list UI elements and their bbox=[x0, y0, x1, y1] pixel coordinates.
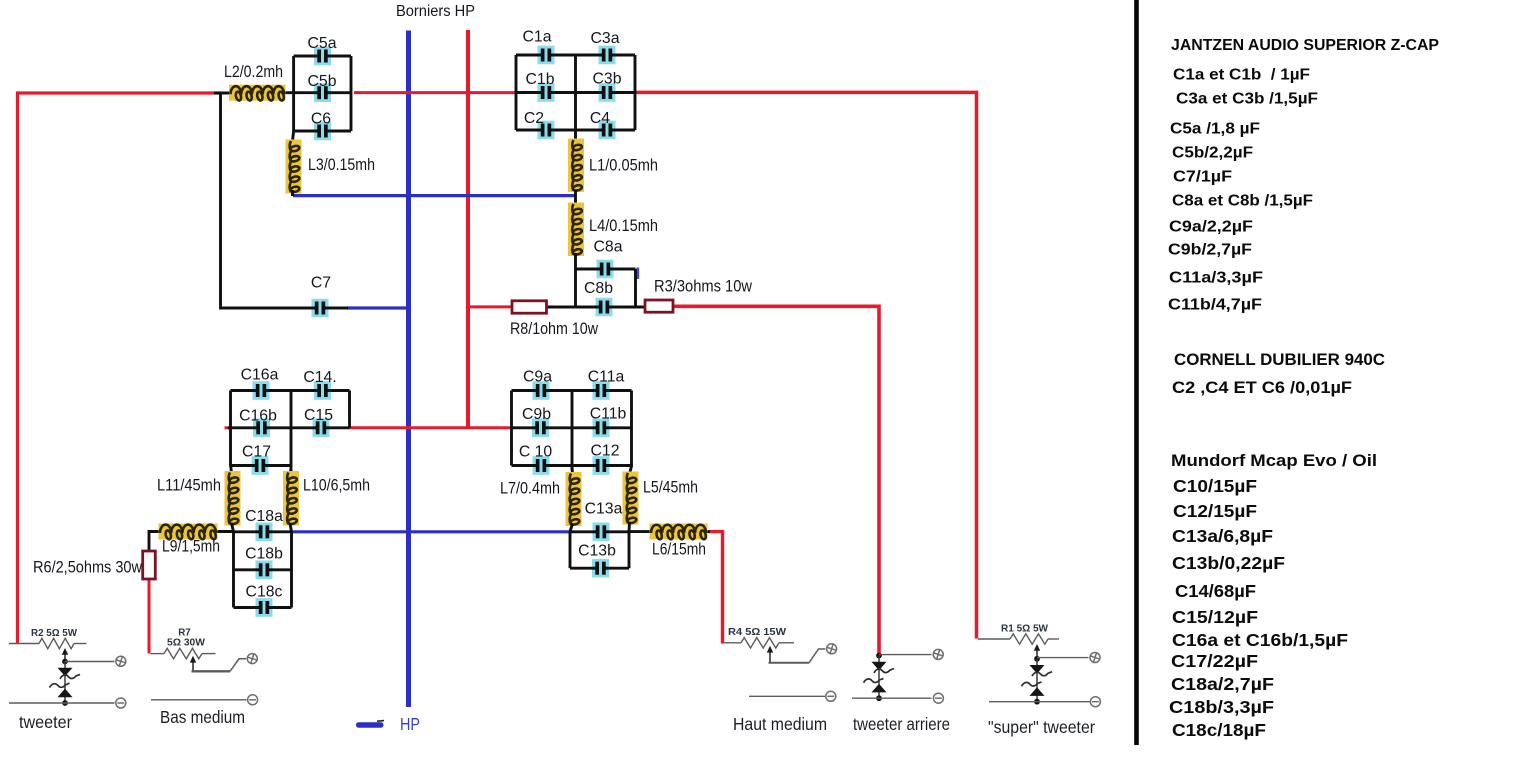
wire C13a row bbox=[570, 530, 629, 533]
svg-text:C5a /1,8 µF: C5a /1,8 µF bbox=[1170, 121, 1260, 138]
wire red feed to R8 bbox=[468, 305, 512, 308]
svg-text:C13b: C13b bbox=[578, 543, 616, 560]
svg-text:tweeter: tweeter bbox=[19, 712, 72, 732]
resistor R8 bbox=[512, 301, 547, 313]
capacitor C18a bbox=[256, 523, 273, 542]
svg-text:C3a: C3a bbox=[591, 30, 620, 47]
wire black L9 right lead bbox=[216, 530, 234, 533]
wiper arrow R1 bbox=[1034, 644, 1040, 659]
wire C9 bank middle rail bbox=[571, 391, 574, 471]
svg-text:C17/22µF: C17/22µF bbox=[1171, 651, 1258, 671]
svg-text:L1/0.05mh: L1/0.05mh bbox=[589, 157, 658, 175]
resistor R6 bbox=[143, 551, 156, 579]
wire Haut medium plus lead bbox=[769, 649, 826, 663]
wire C1a C3a row bbox=[516, 54, 635, 57]
wire C18 bank left rail bbox=[232, 532, 235, 608]
wire blue from C18 bank to C13 bank bbox=[292, 530, 571, 533]
wire C8a row bbox=[576, 268, 636, 271]
potentiometer R1 of super tweeter bbox=[978, 634, 1059, 644]
capacitor C16b bbox=[253, 419, 270, 438]
inductor L11 bbox=[225, 471, 241, 526]
capacitor C12 bbox=[593, 456, 610, 475]
svg-text:C16a: C16a bbox=[241, 367, 279, 384]
svg-text:C15: C15 bbox=[304, 407, 333, 424]
wire C13 bank left rail bbox=[569, 532, 572, 568]
wire C6 row bbox=[294, 130, 351, 133]
sidebar divider line bbox=[1134, 0, 1139, 745]
svg-text:C3a et C3b /1,5µF: C3a et C3b /1,5µF bbox=[1176, 91, 1318, 108]
svg-text:R6/2,5ohms 30w: R6/2,5ohms 30w bbox=[33, 559, 142, 577]
svg-text:C1a et C1b / 1µF: C1a et C1b / 1µF bbox=[1173, 67, 1310, 84]
wire black L4 down to C8b row bbox=[574, 253, 577, 308]
svg-text:C14.: C14. bbox=[303, 369, 336, 386]
svg-text:HP: HP bbox=[400, 714, 420, 734]
wire black L10 to C18 junction bbox=[290, 523, 292, 532]
wire red between C5 bank and C1 bank bbox=[354, 91, 516, 94]
capacitor C16a bbox=[253, 381, 270, 400]
wire C5b row bbox=[294, 91, 351, 94]
node tweeter arriere minus bbox=[876, 695, 882, 701]
svg-text:C1a: C1a bbox=[523, 29, 552, 46]
capacitor C5b bbox=[314, 83, 331, 102]
capacitor C9b bbox=[532, 419, 549, 438]
legend tick bbox=[377, 720, 384, 723]
svg-text:C9a/2,2µF: C9a/2,2µF bbox=[1169, 219, 1253, 236]
svg-text:R3/3ohms 10w: R3/3ohms 10w bbox=[654, 278, 752, 296]
svg-text:C2 ,C4 ET C6 /0,01µF: C2 ,C4 ET C6 /0,01µF bbox=[1172, 378, 1352, 397]
wire C13b row bbox=[570, 567, 629, 570]
wire black C7 row bbox=[221, 307, 349, 310]
svg-text:C18c: C18c bbox=[246, 584, 283, 601]
wire red HP+ bus vertical bbox=[466, 30, 470, 429]
capacitor C8b bbox=[596, 298, 613, 317]
wire red from L6 to Haut medium bbox=[709, 532, 723, 644]
wire black L9 left lead and corner to R6 bbox=[149, 532, 160, 552]
terminal super tweeter minus bbox=[1090, 697, 1100, 707]
capacitor C2 bbox=[538, 121, 555, 140]
svg-text:C18b: C18b bbox=[245, 546, 283, 563]
node tweeter arriere plus bbox=[876, 653, 882, 659]
wire C16a C14 row bbox=[231, 389, 350, 392]
terminal tweeter arriere plus bbox=[932, 649, 944, 661]
capacitor C18b bbox=[256, 561, 273, 580]
svg-text:L10/6,5mh: L10/6,5mh bbox=[303, 477, 370, 495]
node super tweeter plus bbox=[1034, 656, 1040, 662]
capacitor C3a bbox=[599, 46, 616, 65]
node tweeter minus bbox=[62, 700, 68, 706]
wire black L7 stub bbox=[571, 467, 574, 474]
svg-text:C12: C12 bbox=[591, 443, 620, 460]
wire black L11 to C18 junction bbox=[232, 523, 234, 532]
wire C1 bank left rail bbox=[515, 55, 518, 130]
terminal Bas medium minus bbox=[248, 695, 258, 705]
wire black C17 rail to L11 bbox=[229, 466, 233, 473]
wiper arrow R2 bbox=[62, 648, 68, 662]
terminal tweeter plus bbox=[115, 656, 127, 668]
wire black C6-rail to L3 bbox=[293, 131, 294, 141]
svg-text:tweeter arriere: tweeter arriere bbox=[853, 714, 950, 734]
node L2/C5 bank junction bbox=[292, 56, 295, 131]
wire red top bus to super tweeter bbox=[635, 92, 977, 638]
svg-text:CORNELL DUBILIER 940C: CORNELL DUBILIER 940C bbox=[1174, 351, 1385, 369]
capacitor C1b bbox=[538, 83, 555, 102]
wire C17 row bbox=[231, 464, 292, 467]
wire tweeter plus lead bbox=[65, 661, 115, 663]
svg-text:R1 5Ω 5W: R1 5Ω 5W bbox=[1001, 624, 1048, 635]
svg-text:L3/0.15mh: L3/0.15mh bbox=[308, 156, 375, 174]
wire black L3 bottom stub bbox=[291, 190, 294, 196]
wire red left feed rail bbox=[18, 93, 221, 643]
svg-text:C17: C17 bbox=[242, 444, 271, 461]
wire black L6 right lead bbox=[705, 530, 710, 533]
wire blue from C7 to HP- bus bbox=[347, 306, 410, 309]
capacitor C1a bbox=[538, 46, 555, 65]
svg-text:C18a: C18a bbox=[245, 508, 283, 525]
svg-text:C 10: C 10 bbox=[519, 444, 553, 461]
wire tweeter arriere minus lead bbox=[852, 697, 932, 699]
wire black L5 to C13 junction bbox=[628, 522, 631, 532]
wiper arrow R4 bbox=[767, 646, 773, 663]
inductor L10 bbox=[283, 471, 299, 526]
wire tweeter minus lead bbox=[9, 702, 115, 704]
terminal tweeter arriere minus bbox=[933, 693, 943, 703]
svg-text:C18a/2,7µF: C18a/2,7µF bbox=[1171, 674, 1274, 694]
wire C9 bank left rail bbox=[510, 391, 513, 466]
wire C16 bank middle rail bbox=[290, 391, 293, 472]
svg-text:C6: C6 bbox=[311, 111, 331, 128]
svg-text:C3b: C3b bbox=[593, 71, 622, 88]
svg-text:C13b/0,22µF: C13b/0,22µF bbox=[1172, 553, 1285, 573]
svg-text:Mundorf Mcap Evo / Oil: Mundorf Mcap Evo / Oil bbox=[1171, 451, 1377, 470]
svg-text:C7: C7 bbox=[311, 275, 331, 292]
svg-text:C15/12µF: C15/12µF bbox=[1172, 607, 1258, 627]
svg-text:C8b: C8b bbox=[584, 280, 613, 297]
wire blue HP- bus vertical bbox=[406, 31, 411, 708]
wire blue stub at C8a right rail bbox=[636, 268, 639, 280]
potentiometer R4 of Haut medium bbox=[723, 638, 794, 648]
svg-text:R2 5Ω 5W: R2 5Ω 5W bbox=[31, 628, 78, 639]
svg-text:C5b: C5b bbox=[308, 73, 337, 90]
wire C8b row bbox=[545, 306, 646, 309]
svg-text:5Ω 30W: 5Ω 30W bbox=[167, 638, 206, 649]
svg-text:L9/1,5mh: L9/1,5mh bbox=[162, 538, 220, 556]
inductor L5 bbox=[623, 472, 639, 525]
potentiometer R2 of tweeter bbox=[9, 638, 87, 648]
node super tweeter minus bbox=[1034, 699, 1040, 705]
svg-text:L2/0.2mh: L2/0.2mh bbox=[224, 63, 283, 81]
svg-text:C12/15µF: C12/15µF bbox=[1173, 501, 1257, 521]
inductor L3 bbox=[286, 140, 302, 194]
wire C18a row bbox=[234, 530, 292, 533]
svg-text:"super" tweeter: "super" tweeter bbox=[988, 717, 1095, 737]
svg-text:C14/68µF: C14/68µF bbox=[1175, 581, 1256, 601]
protection diodes tweeter bbox=[50, 662, 81, 704]
wire C13 bank right rail bbox=[628, 532, 631, 568]
wire C9 bank right rail bbox=[630, 391, 633, 468]
node tweeter plus bbox=[62, 659, 68, 665]
terminal Haut medium minus bbox=[826, 691, 836, 701]
wire C1 bank middle rail bbox=[574, 55, 577, 130]
capacitor C17 bbox=[252, 456, 269, 475]
inductor L9 bbox=[159, 524, 218, 540]
potentiometer R7 of Bas medium bbox=[151, 648, 216, 658]
capacitor C15 bbox=[313, 419, 330, 438]
wire black L10 top stub bbox=[290, 469, 291, 473]
svg-text:Haut medium: Haut medium bbox=[733, 714, 827, 734]
wire C5a row bbox=[294, 55, 351, 58]
wire C8 right rail bbox=[634, 269, 637, 307]
inductor L4 bbox=[568, 203, 584, 257]
svg-text:R4 5Ω 15W: R4 5Ω 15W bbox=[728, 627, 786, 638]
svg-text:C18b/3,3µF: C18b/3,3µF bbox=[1169, 697, 1274, 717]
svg-text:C9b/2,7µF: C9b/2,7µF bbox=[1168, 242, 1252, 259]
wire C9a C11a row bbox=[512, 389, 632, 392]
svg-text:C5b/2,2µF: C5b/2,2µF bbox=[1172, 145, 1253, 162]
wire C16b C15 row bbox=[228, 426, 350, 429]
wire Haut medium minus lead bbox=[749, 695, 825, 697]
inductor L7 bbox=[566, 472, 582, 526]
terminal super tweeter plus bbox=[1089, 652, 1101, 664]
wire super tweeter plus lead bbox=[1037, 657, 1089, 659]
capacitor C4 bbox=[599, 121, 616, 140]
svg-text:R8/1ohm 10w: R8/1ohm 10w bbox=[510, 320, 598, 338]
svg-text:Borniers HP: Borniers HP bbox=[396, 3, 475, 20]
wire black vertical from L2 node to C7 bbox=[219, 92, 222, 310]
svg-text:C13a: C13a bbox=[585, 501, 623, 518]
capacitor C5a bbox=[314, 47, 331, 66]
wire black L1 to L4 junction bbox=[574, 190, 577, 204]
capacitor C14 bbox=[314, 381, 331, 400]
svg-text:C18c/18µF: C18c/18µF bbox=[1172, 720, 1266, 740]
svg-text:C5a: C5a bbox=[308, 35, 337, 52]
wire tweeter arriere plus lead bbox=[879, 654, 932, 656]
svg-text:C2: C2 bbox=[524, 110, 544, 127]
svg-text:C11b: C11b bbox=[590, 406, 627, 423]
inductor L6 bbox=[650, 524, 708, 540]
wiper arrow R7 bbox=[190, 656, 196, 672]
capacitor C9a bbox=[533, 381, 550, 400]
terminal Haut medium plus bbox=[826, 643, 838, 655]
svg-text:Bas medium: Bas medium bbox=[160, 707, 245, 727]
svg-text:C7/1µF: C7/1µF bbox=[1173, 169, 1232, 186]
svg-text:JANTZEN AUDIO SUPERIOR Z-CAP: JANTZEN AUDIO SUPERIOR Z-CAP bbox=[1171, 37, 1439, 54]
wire C16 bank right rail bbox=[348, 391, 351, 429]
wire red from R6 to Bas medium bbox=[148, 579, 151, 654]
protection diodes tweeter arriere bbox=[864, 656, 895, 699]
capacitor C7 bbox=[312, 299, 329, 318]
wire C16 bank left rail bbox=[229, 391, 232, 467]
wire C18 bank right rail bbox=[290, 532, 293, 608]
wire C10 C12 row bbox=[512, 464, 632, 467]
svg-text:L11/45mh: L11/45mh bbox=[157, 477, 221, 495]
protection diodes super tweeter bbox=[1022, 659, 1053, 702]
wire red from R3 to tweeter arriere bbox=[673, 306, 879, 656]
svg-text:C9a: C9a bbox=[523, 369, 552, 386]
svg-text:C11a: C11a bbox=[588, 369, 625, 386]
wire C2 C4 row bbox=[516, 129, 635, 132]
svg-text:C16b: C16b bbox=[239, 408, 277, 425]
capacitor C11a bbox=[593, 381, 610, 400]
wire black C13 to L6 bbox=[629, 530, 651, 533]
capacitor C6 bbox=[314, 122, 331, 141]
capacitor C13b bbox=[592, 559, 609, 578]
wire red stub left of C16b bbox=[225, 426, 231, 429]
wire C9b C11b row bbox=[512, 426, 632, 429]
svg-text:L6/15mh: L6/15mh bbox=[652, 541, 706, 559]
legend HP wire sample bbox=[356, 722, 384, 727]
svg-text:C16a et C16b/1,5µF: C16a et C16b/1,5µF bbox=[1172, 630, 1348, 650]
wire C1 bank right rail bbox=[634, 55, 637, 130]
svg-text:C13a/6,8µF: C13a/6,8µF bbox=[1172, 526, 1273, 546]
wire C18c row bbox=[234, 606, 292, 609]
svg-text:C11a/3,3µF: C11a/3,3µF bbox=[1169, 270, 1263, 287]
wire black L5 stub bbox=[630, 466, 632, 474]
wire black bank to L1 bbox=[574, 130, 577, 140]
wire C1b C3b row bbox=[516, 91, 635, 94]
capacitor C13a bbox=[593, 523, 610, 542]
wire black L7 to C13 junction bbox=[570, 524, 573, 532]
capacitor C8a bbox=[597, 260, 614, 279]
svg-text:C4: C4 bbox=[590, 110, 610, 127]
svg-text:C1b: C1b bbox=[526, 71, 555, 88]
wire Bas medium plus lead bbox=[192, 659, 247, 672]
capacitor C11b bbox=[593, 419, 610, 438]
capacitor C18c bbox=[256, 598, 273, 617]
wire super tweeter minus lead bbox=[989, 701, 1090, 703]
svg-text:C9b: C9b bbox=[522, 406, 551, 423]
wire red crossover link row bbox=[350, 426, 513, 429]
svg-text:L4/0.15mh: L4/0.15mh bbox=[589, 217, 658, 235]
capacitor C10 bbox=[533, 456, 550, 475]
svg-text:C10/15µF: C10/15µF bbox=[1173, 476, 1257, 496]
svg-text:C11b/4,7µF: C11b/4,7µF bbox=[1168, 297, 1262, 314]
resistor R3 bbox=[645, 300, 673, 312]
capacitor C3b bbox=[599, 83, 616, 102]
svg-text:C8a: C8a bbox=[594, 239, 623, 256]
inductor L2 bbox=[229, 85, 286, 101]
wire C18b row bbox=[234, 568, 292, 571]
wire Bas medium minus lead bbox=[151, 699, 247, 701]
svg-text:C8a et C8b /1,5µF: C8a et C8b /1,5µF bbox=[1172, 193, 1313, 210]
wire C5 bank right rail bbox=[350, 56, 353, 131]
wire black L2 left lead bbox=[214, 92, 231, 95]
wire black L2 right lead bbox=[283, 91, 295, 94]
wire blue from L3 to L1 junction bbox=[293, 194, 576, 197]
terminal Bas medium plus bbox=[247, 653, 259, 665]
svg-text:L7/0.4mh: L7/0.4mh bbox=[500, 480, 560, 498]
inductor L1 bbox=[568, 139, 584, 193]
svg-text:L5/45mh: L5/45mh bbox=[643, 479, 698, 497]
terminal tweeter minus bbox=[116, 698, 126, 708]
